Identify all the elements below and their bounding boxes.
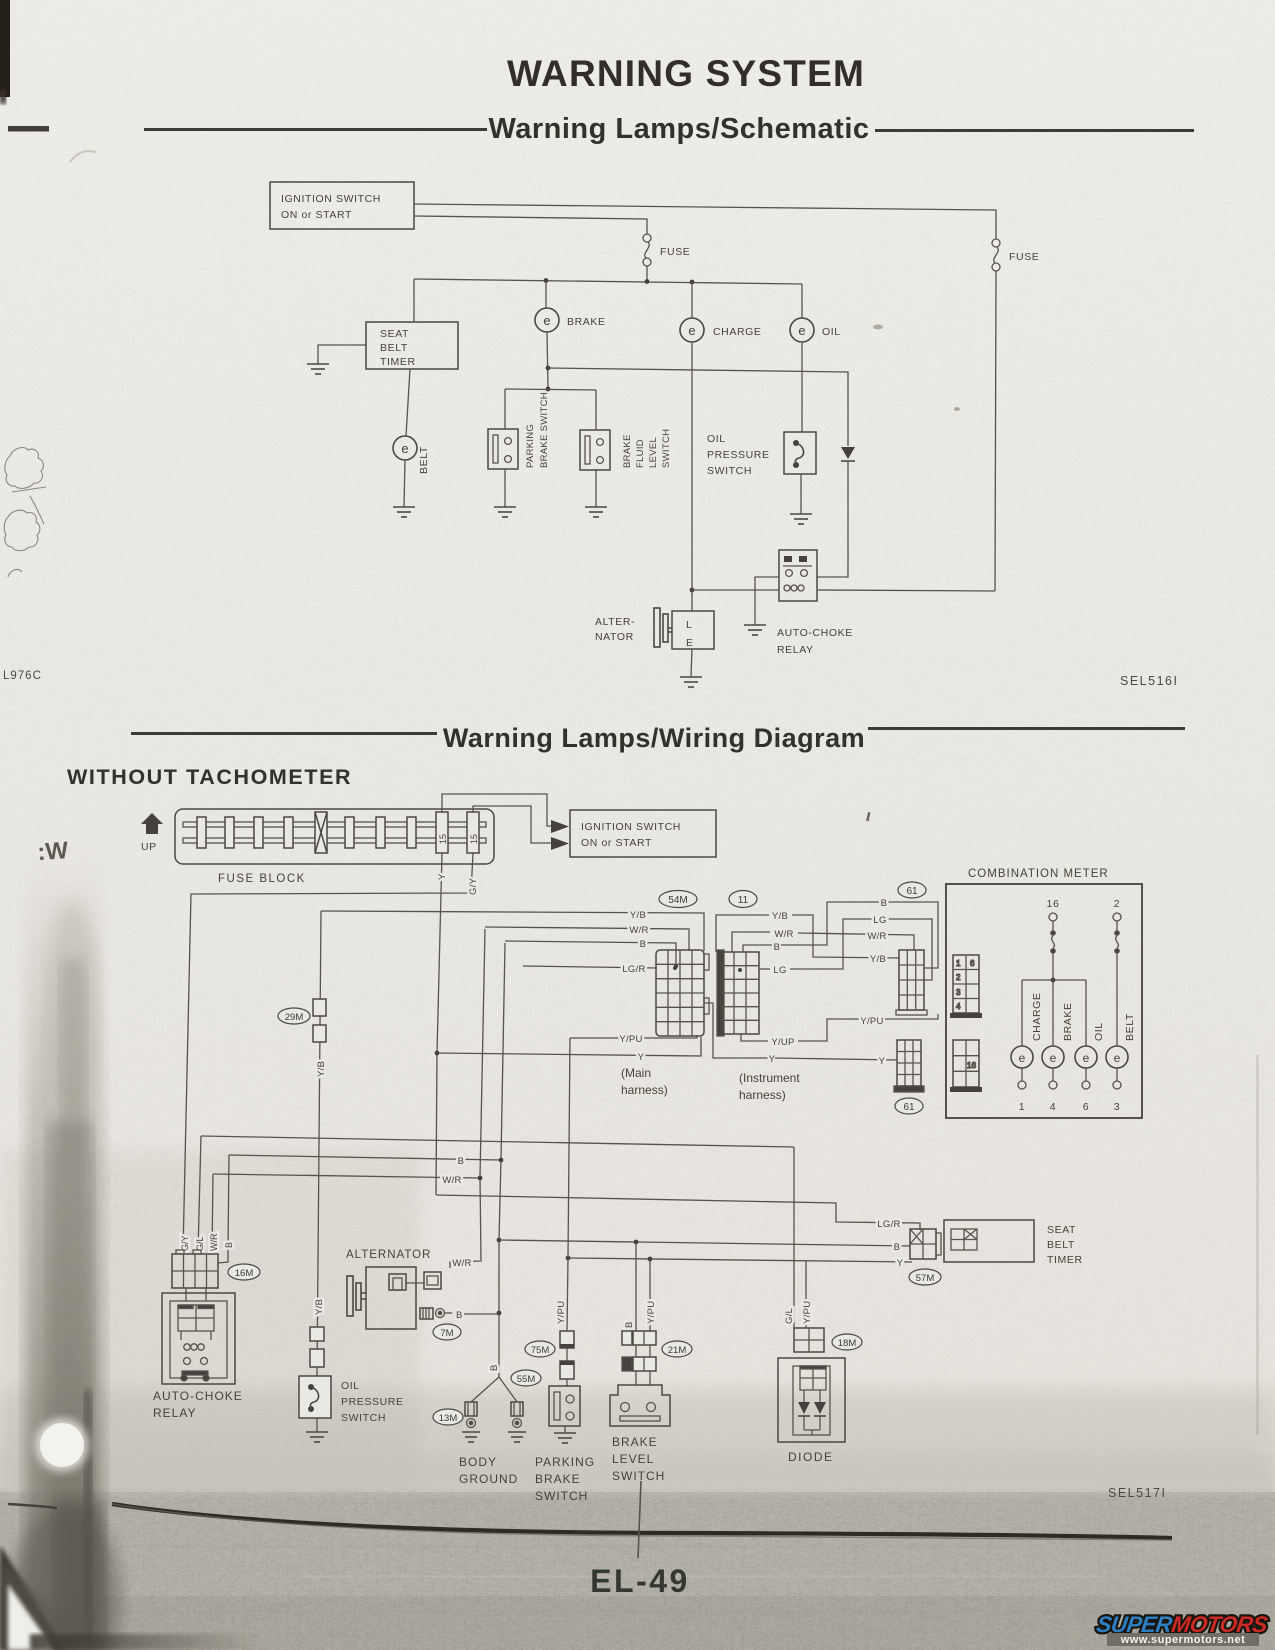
ignition switch box lower: [570, 810, 716, 857]
label Y instrument: [769, 1054, 776, 1065]
svg-text:www.supermotors.net: www.supermotors.net: [1120, 1634, 1246, 1646]
svg-text:BELT: BELT: [1047, 1239, 1075, 1251]
svg-text:BELT: BELT: [380, 342, 408, 354]
svg-text:SWITCH: SWITCH: [535, 1489, 588, 1503]
meter mini grid top: [953, 955, 979, 1013]
label Y at 61 lower: [879, 1056, 886, 1067]
svg-text:FUSE: FUSE: [660, 246, 690, 258]
svg-text:54M: 54M: [668, 895, 687, 906]
ground seat belt timer: [307, 364, 329, 374]
label BELT rotated: [418, 446, 430, 474]
wire switch branch bar: [505, 389, 596, 390]
svg-text:IGNITION SWITCH: IGNITION SWITCH: [581, 821, 681, 833]
wire W/R instrument to 61: [798, 933, 914, 950]
wire B instrument to 61: [781, 902, 938, 968]
wire Y main harness: [437, 1037, 701, 1056]
svg-text:G/Y: G/Y: [180, 1235, 190, 1251]
node bus-fuse: [645, 279, 650, 284]
svg-text:Y/PU: Y/PU: [556, 1301, 567, 1324]
fold curve left fragment: [8, 1504, 57, 1508]
svg-text:57M: 57M: [916, 1273, 935, 1284]
label B rotated 16M: [224, 1242, 234, 1248]
label LG/R main: [622, 964, 645, 975]
label CHARGE rotated: [1031, 992, 1043, 1041]
label Y main: [638, 1052, 645, 1063]
svg-text:3: 3: [1114, 1101, 1120, 1113]
wire W/R instrument left: [732, 932, 770, 952]
connector ops lower half: [310, 1349, 324, 1367]
wire bus corner to oil lamp: [801, 284, 803, 318]
UP arrow: [141, 813, 163, 853]
scan speck mid page: [954, 407, 960, 411]
ground ops lower: [306, 1432, 328, 1442]
connector 21M row2: [622, 1357, 656, 1371]
wire alternator to ground: [691, 649, 692, 677]
wire Y/PU to 57M: [568, 1258, 912, 1262]
oil pressure switch S3: [784, 432, 816, 474]
left margin sketch artifact 1: [4, 448, 46, 577]
label Y/PU at 61: [860, 1016, 883, 1027]
node bus-charge: [690, 280, 695, 285]
wire Y/B vertical 29M: [317, 911, 321, 1376]
alternator box: [672, 611, 714, 649]
label B body ground wire: [489, 1364, 500, 1371]
label brake level switch: [612, 1435, 665, 1483]
label combination meter: [968, 868, 1109, 880]
label G/Y rotated 16M: [180, 1235, 190, 1251]
wire relay to ground: [755, 577, 779, 625]
scan speck near oil lamp: [873, 325, 883, 330]
meter junction bar: [1022, 979, 1086, 981]
svg-text:Y: Y: [437, 873, 448, 880]
node B alternator junction: [497, 1311, 502, 1316]
meter pin stubs bottom: [1018, 1068, 1121, 1089]
wire bus to seat belt timer: [413, 279, 415, 322]
svg-text:W/R: W/R: [452, 1258, 471, 1269]
fuse block rail bottom: [183, 838, 486, 843]
band streaks: [60, 1545, 1180, 1635]
fuse block rail top: [183, 822, 486, 827]
lamp BELT: [393, 436, 417, 460]
svg-text:WARNING SYSTEM: WARNING SYSTEM: [507, 53, 865, 94]
svg-text:1: 1: [1019, 1101, 1025, 1113]
node W/R junction: [478, 1176, 483, 1181]
svg-text:Y/B: Y/B: [314, 1299, 325, 1315]
label G/Y fuse: [468, 877, 479, 895]
label (Instrument harness): [739, 1071, 800, 1102]
svg-text:harness): harness): [621, 1083, 668, 1097]
diode box: [778, 1358, 845, 1442]
svg-text:BRAKE: BRAKE: [622, 434, 633, 468]
svg-text:OIL: OIL: [707, 433, 726, 445]
label B 16M line: [458, 1156, 465, 1167]
ground relay: [744, 625, 766, 635]
arrow feed A: [551, 820, 569, 833]
L976C margin text: [3, 670, 42, 682]
diode D3 right: [814, 1390, 826, 1430]
svg-text:Y/PU: Y/PU: [646, 1301, 657, 1324]
svg-text:SEL516I: SEL516I: [1120, 674, 1178, 688]
wire Y/UP instrument: [741, 1034, 768, 1041]
wire B branch 21M: [635, 1242, 637, 1331]
node B 57M junction: [497, 1238, 502, 1243]
label oil pressure switch lower: [341, 1380, 404, 1424]
svg-text:BRAKE: BRAKE: [567, 316, 606, 328]
ground parking lower: [554, 1433, 576, 1443]
svg-text:61: 61: [906, 886, 918, 897]
ignition switch box U1: [270, 182, 414, 229]
body ground bolt right: [511, 1402, 523, 1428]
label Y/PU 75M: [556, 1301, 567, 1324]
svg-text:PARKING: PARKING: [535, 1455, 595, 1469]
main harness connector grid: [656, 950, 709, 1036]
brake fluid level switch S2: [580, 430, 610, 470]
wire Y instrument to 61 lower: [775, 1058, 897, 1060]
diode D1: [841, 447, 855, 461]
oil pressure switch lower: [299, 1376, 331, 1418]
label W/R rotated 16M: [209, 1233, 219, 1251]
svg-text:FUSE BLOCK: FUSE BLOCK: [218, 873, 306, 885]
svg-text:B: B: [894, 1242, 901, 1253]
svg-text:16M: 16M: [235, 1268, 254, 1279]
lamp CHARGE: [680, 318, 762, 342]
alternator B terminal: [420, 1308, 452, 1319]
svg-text:BRAKE SWITCH: BRAKE SWITCH: [539, 392, 550, 468]
wire seat belt timer to ground: [318, 345, 366, 364]
svg-text:e: e: [688, 323, 695, 338]
label Y/B at 61: [870, 954, 886, 965]
section title Warning Lamps/Wiring Diagram: [443, 723, 865, 753]
ground belt: [393, 507, 415, 517]
svg-text:BODY: BODY: [459, 1455, 497, 1469]
svg-text:4: 4: [1050, 1101, 1056, 1113]
bottom-left dark corner fold: [0, 1545, 260, 1650]
svg-text:OIL: OIL: [822, 326, 841, 338]
oval 61 bottom: [895, 1098, 923, 1114]
svg-text:e: e: [401, 441, 408, 456]
connector 18M: [794, 1328, 824, 1352]
connector 29M lower half: [313, 1025, 326, 1042]
main title WARNING SYSTEM: [507, 53, 865, 94]
section rule left (wiring): [131, 732, 437, 735]
svg-text:RELAY: RELAY: [153, 1406, 196, 1420]
svg-text:W/R: W/R: [209, 1233, 219, 1251]
svg-text:W/R: W/R: [442, 1175, 461, 1186]
svg-text:Y: Y: [638, 1052, 645, 1063]
node brake-diode branch: [546, 366, 551, 371]
ground oil pressure switch: [790, 514, 812, 524]
svg-text:UP: UP: [141, 841, 157, 853]
wire B to 57M: [499, 1240, 910, 1246]
svg-text:ON or START: ON or START: [581, 837, 652, 849]
parking brake switch lower: [549, 1386, 580, 1426]
svg-text:EL-49: EL-49: [590, 1563, 690, 1599]
svg-text:2: 2: [956, 973, 961, 982]
section rule left (schematic): [144, 128, 487, 131]
combination meter box: [946, 884, 1142, 1118]
svg-text:ON or START: ON or START: [281, 209, 352, 221]
label W/R at 61: [867, 931, 886, 942]
label B at 61: [881, 898, 888, 909]
wire LG instrument: [759, 968, 770, 970]
body ground bolt left: [465, 1402, 477, 1428]
svg-text:L976C: L976C: [3, 670, 42, 682]
node B brake level branch: [634, 1240, 639, 1245]
brake level switch body: [610, 1385, 670, 1426]
wire diode to relay contact: [817, 461, 848, 577]
svg-text:G/L: G/L: [195, 1236, 205, 1251]
svg-text:PRESSURE: PRESSURE: [707, 449, 770, 461]
svg-text:G/L: G/L: [784, 1308, 795, 1324]
ground body left: [462, 1432, 480, 1442]
svg-text:E: E: [686, 637, 694, 649]
svg-text:NATOR: NATOR: [595, 631, 634, 643]
label parking brake switch lower: [535, 1455, 595, 1503]
label Y 57M: [897, 1258, 904, 1269]
label B instrument: [774, 942, 781, 953]
wire fuse F1 to bus: [646, 266, 648, 281]
node bus-brake: [544, 278, 549, 283]
supermotors url bar: [1107, 1633, 1259, 1646]
svg-text:18M: 18M: [838, 1338, 857, 1349]
wire Y/PU vertical to diode: [805, 1261, 807, 1328]
61 lower connector grid: [894, 1040, 924, 1092]
svg-text:Warning Lamps/Schematic: Warning Lamps/Schematic: [488, 113, 869, 145]
svg-text:e: e: [798, 323, 805, 338]
oval 57M: [909, 1269, 941, 1285]
figure code SEL516I: [1120, 674, 1178, 688]
svg-text:CHARGE: CHARGE: [1031, 992, 1043, 1041]
heading WITHOUT TACHOMETER: [67, 765, 352, 789]
oval 16M: [228, 1264, 260, 1280]
wire B main harness: [505, 941, 676, 966]
hole punch: [35, 1418, 89, 1472]
node meter junction: [1051, 978, 1056, 983]
lamp BRAKE: [535, 308, 606, 332]
svg-text:G/Y: G/Y: [468, 877, 479, 895]
svg-text:LG: LG: [873, 915, 886, 926]
pin 2 label: [1114, 898, 1120, 910]
label diode: [788, 1450, 834, 1464]
svg-text:harness): harness): [739, 1088, 786, 1102]
connector 21M row1: [622, 1331, 656, 1345]
wire parking switch to ground: [564, 1426, 566, 1433]
svg-text:SWITCH: SWITCH: [341, 1412, 386, 1424]
wire fuse block feed B to ignition: [473, 806, 551, 843]
svg-text:75M: 75M: [531, 1345, 550, 1356]
node charge-relay: [690, 588, 695, 593]
svg-text:e: e: [1050, 1051, 1057, 1065]
svg-text:B: B: [224, 1242, 234, 1248]
wire G/L left bend: [198, 1136, 201, 1252]
svg-text:Y/UP: Y/UP: [771, 1037, 794, 1048]
wire 55M to parking switch: [566, 1348, 568, 1386]
label B alternator: [456, 1310, 463, 1321]
fuse F1: [643, 234, 690, 266]
label parking brake switch rotated: [525, 392, 550, 468]
svg-text:Y/PU: Y/PU: [619, 1034, 642, 1045]
oval 55M: [511, 1370, 541, 1386]
svg-text:BRAKE: BRAKE: [1062, 1002, 1074, 1041]
wires 21M between rows: [636, 1345, 650, 1385]
wire to brake fluid switch: [595, 390, 597, 430]
label G/L diode: [784, 1308, 795, 1324]
bus wire: [414, 279, 802, 284]
label brake fluid level switch rotated: [622, 429, 672, 468]
svg-text:BRAKE: BRAKE: [535, 1472, 581, 1486]
svg-text:PRESSURE: PRESSURE: [341, 1396, 404, 1408]
oval 54M: [659, 891, 697, 908]
svg-text:6: 6: [1083, 1101, 1089, 1113]
label Y/UP: [771, 1037, 794, 1048]
page number EL-49: [590, 1563, 690, 1599]
label B 57M: [894, 1242, 901, 1253]
meter grid bottom bar: [950, 1087, 982, 1092]
svg-text:LEVEL: LEVEL: [612, 1452, 654, 1466]
wire fuse F2 down to relay: [995, 271, 996, 591]
label LG/R seat belt: [877, 1219, 900, 1230]
label Y/PU main: [619, 1034, 642, 1045]
label W/R main: [629, 925, 648, 936]
meter mini grid bottom: [953, 1040, 979, 1087]
svg-text:Y/B: Y/B: [316, 1061, 327, 1077]
svg-text:ALTERNATOR: ALTERNATOR: [346, 1249, 431, 1261]
lamp CHARGE meter: [1011, 1046, 1033, 1068]
ground fluid switch: [585, 507, 607, 517]
connector 75M half: [560, 1331, 574, 1348]
fuse block outline: [175, 809, 494, 864]
figure code SEL517I: [1108, 1486, 1166, 1500]
wire Y/PU to 61 top connector: [798, 1014, 938, 1041]
label W/R 16M line: [442, 1175, 461, 1186]
svg-text:(Instrument: (Instrument: [739, 1071, 800, 1085]
svg-text:B: B: [458, 1156, 465, 1167]
alternator top connector: [389, 1274, 406, 1290]
svg-text:Y: Y: [897, 1258, 904, 1269]
wire parking switch to ground: [504, 469, 506, 507]
pin 16 circle: [1049, 913, 1057, 921]
wire Y/PU main harness: [570, 1035, 697, 1038]
svg-text:4: 4: [956, 1002, 961, 1011]
svg-text:W/R: W/R: [629, 925, 648, 936]
label auto-choke relay lower: [153, 1389, 243, 1420]
fuse with X mark: [315, 812, 327, 853]
16M connector grid: [172, 1250, 218, 1288]
wire belt lamp to ground: [404, 460, 405, 507]
oval 7M: [433, 1324, 461, 1340]
label alternator lower: [346, 1249, 431, 1261]
lamp BELT meter: [1106, 1046, 1128, 1068]
wire ignition to fuse F1: [414, 216, 647, 234]
arrow feed B: [551, 837, 569, 850]
svg-text:LEVEL: LEVEL: [648, 437, 659, 468]
svg-text:e: e: [1083, 1051, 1090, 1065]
wire timer to belt lamp: [406, 369, 410, 436]
svg-text:LG: LG: [773, 965, 786, 976]
ground parking switch: [494, 507, 516, 517]
bottom gray band: [0, 1455, 1275, 1650]
svg-text:RELAY: RELAY: [777, 644, 814, 656]
wire LG/R main harness: [523, 966, 657, 968]
label G/L rotated 16M: [195, 1236, 205, 1251]
61 upper connector grid: [896, 950, 927, 1015]
wire oil pressure switch to ground: [800, 474, 802, 514]
diode D2 left: [798, 1390, 810, 1430]
node Y/PU 21M junction: [648, 1257, 653, 1262]
alternator pulley: [654, 608, 672, 647]
connector 29M upper half: [313, 999, 326, 1016]
svg-text:13M: 13M: [439, 1413, 458, 1424]
svg-text:SWITCH: SWITCH: [612, 1469, 665, 1483]
label Y/B lower ops: [314, 1299, 325, 1315]
auto-choke relay K1: [779, 550, 817, 601]
svg-text:55M: 55M: [517, 1374, 536, 1385]
svg-text:B: B: [624, 1321, 635, 1328]
svg-text:W/R: W/R: [774, 929, 793, 940]
pin 2 circle: [1113, 913, 1121, 921]
wire LG/R long: [436, 1195, 920, 1230]
wire charge branch: [1021, 980, 1023, 1046]
svg-text:Y: Y: [769, 1054, 776, 1065]
wire brake to diode column: [548, 368, 848, 446]
alternator lower pulley: [347, 1276, 366, 1316]
wire Y/B instrument to 61: [792, 915, 899, 958]
wire LG instrument to 61: [790, 919, 932, 980]
vertical crease: [638, 1481, 641, 1558]
svg-text:TIMER: TIMER: [1047, 1254, 1083, 1266]
label (Main harness): [621, 1066, 668, 1097]
svg-text:(Main: (Main: [621, 1066, 651, 1080]
node pin instrument connector: [738, 968, 742, 972]
svg-text:WITHOUT TACHOMETER: WITHOUT TACHOMETER: [67, 765, 352, 789]
label Y/B 29M: [316, 1061, 327, 1077]
alternator lower box: [366, 1267, 416, 1329]
diode bottom join: [804, 1430, 820, 1435]
svg-text:6: 6: [970, 959, 975, 968]
seat belt timer box: [366, 322, 458, 369]
supermotors logo: [1095, 1612, 1269, 1637]
svg-text:21M: 21M: [668, 1345, 687, 1356]
svg-text:BELT: BELT: [418, 446, 430, 474]
label Y/B main: [630, 910, 646, 921]
svg-text:LG/R: LG/R: [622, 964, 645, 975]
svg-text:SWITCH: SWITCH: [707, 465, 752, 477]
label seat belt timer: [1047, 1224, 1083, 1266]
wire B vertical main: [499, 943, 505, 1377]
svg-text:15: 15: [438, 834, 448, 844]
label oil pressure switch: [707, 433, 770, 477]
svg-text:OIL: OIL: [1093, 1022, 1105, 1041]
label BELT rotated: [1124, 1013, 1136, 1041]
top-left black edge bar: [0, 0, 10, 104]
lamp BRAKE meter: [1042, 1046, 1064, 1068]
auto-choke relay assembly lower: [162, 1293, 235, 1384]
wire B instrument left: [743, 945, 773, 952]
svg-text:BRAKE: BRAKE: [612, 1435, 658, 1449]
left edge dark smudge band: [11, 850, 121, 1650]
label auto-choke relay: [777, 627, 853, 656]
svg-text:LG/R: LG/R: [877, 1219, 900, 1230]
wire relay coil right to fuse F2: [817, 590, 995, 591]
wire to parking brake switch: [504, 389, 506, 429]
W/R connector pair: [406, 1272, 441, 1289]
wire ops to ground: [316, 1418, 318, 1432]
meter grid top bar: [950, 1013, 982, 1018]
svg-text:SEAT: SEAT: [1047, 1224, 1076, 1236]
node Y junction: [435, 1051, 440, 1056]
svg-text:IGNITION SWITCH: IGNITION SWITCH: [281, 193, 381, 205]
svg-text:15: 15: [469, 834, 479, 844]
